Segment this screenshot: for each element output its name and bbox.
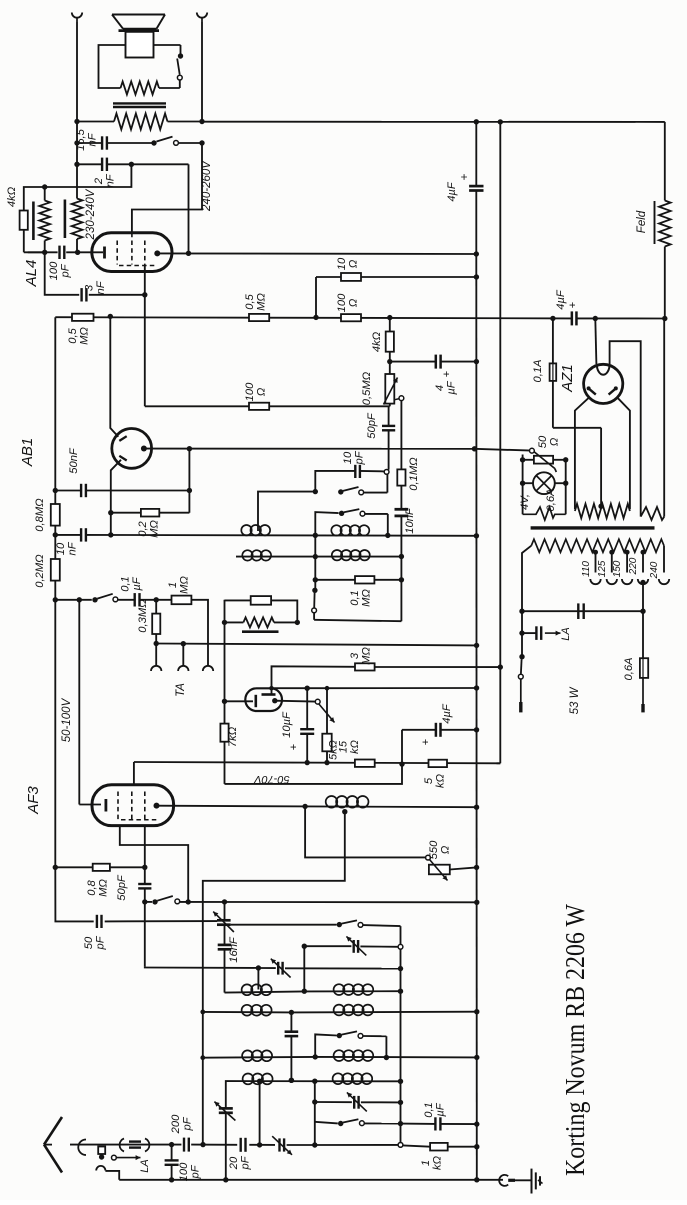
ground chassis <box>532 1169 543 1194</box>
label 550Ω <box>428 840 452 859</box>
capacitor 50pF (osc) <box>97 915 102 928</box>
label 0,1uF <box>120 576 144 592</box>
node <box>313 489 318 494</box>
capacitor 50pF (AF3) <box>138 884 151 888</box>
wire <box>154 45 181 54</box>
inductor ant coil 3a <box>242 1050 272 1061</box>
capacitor 10pF <box>355 465 360 478</box>
svg-text:0,1: 0,1 <box>423 1102 435 1118</box>
svg-text:15: 15 <box>338 740 350 753</box>
svg-text:0,1: 0,1 <box>349 590 361 606</box>
label AB1 <box>19 438 36 467</box>
tube AF3 envelope <box>92 785 174 826</box>
wire <box>475 122 477 254</box>
label 4uF <box>446 181 458 201</box>
contact <box>398 944 403 949</box>
svg-text:100: 100 <box>336 293 348 312</box>
wire <box>77 142 152 144</box>
rheostat 50Ω <box>533 451 556 472</box>
wire <box>305 806 426 857</box>
svg-text:240-260V: 240-260V <box>201 160 213 212</box>
tube AF3 grid 1 dash <box>117 792 119 821</box>
wire <box>53 865 148 870</box>
svg-text:50: 50 <box>83 936 95 949</box>
wire <box>400 516 402 621</box>
lamp 4V 0,6A <box>533 472 555 494</box>
svg-text:MΩ: MΩ <box>98 879 110 897</box>
label 5kΩ (divider) <box>423 773 447 788</box>
switch band 7 <box>315 1119 403 1126</box>
capacitor 4uF (screen) <box>436 355 441 369</box>
wire AF3 anode row <box>157 804 480 810</box>
tube AB1 envelope <box>112 429 152 469</box>
tube AB1 cathode <box>141 446 147 452</box>
label 0,5MΩ <box>67 327 91 345</box>
wire IF secondary row <box>236 556 401 558</box>
label 0,2MΩ (AVC) <box>34 554 46 588</box>
label 0,6A <box>623 657 635 680</box>
label 0,8MΩ (AF3) <box>86 879 110 897</box>
capacitor 16nF <box>218 945 232 949</box>
resistor 100Ω <box>341 314 361 321</box>
svg-text:Ω: Ω <box>348 298 360 307</box>
label 150 <box>612 560 623 577</box>
terminal 240 <box>659 579 669 584</box>
svg-text:0,1MΩ: 0,1MΩ <box>408 457 420 491</box>
node coil tap <box>342 809 347 814</box>
svg-text:LA: LA <box>560 627 572 640</box>
label LA (mains) <box>560 627 572 640</box>
node <box>142 899 147 904</box>
svg-text:nF: nF <box>95 280 107 294</box>
wire trimmer row 2 <box>302 944 352 949</box>
wire coil row 3 <box>203 1054 480 1060</box>
wire left bus <box>54 317 56 867</box>
chassis hook <box>499 1175 515 1186</box>
wire <box>664 247 666 319</box>
svg-text:0,3MΩ: 0,3MΩ <box>137 599 149 633</box>
wire <box>45 252 79 294</box>
wire 3MΩ row <box>272 664 503 688</box>
wire <box>315 1034 337 1056</box>
capacitor trimmer 4 (ant padder) <box>214 1102 235 1121</box>
node <box>399 577 404 582</box>
svg-text:7kΩ: 7kΩ <box>227 726 239 747</box>
wire <box>188 449 190 513</box>
svg-text:AL4: AL4 <box>23 260 40 288</box>
capacitor trimmer 3 <box>271 959 291 978</box>
label 50pF (AB1) <box>366 412 378 439</box>
resistor 100Ω (grid) <box>249 403 269 410</box>
wire AB1 cathode row <box>144 446 477 451</box>
wire <box>110 316 118 436</box>
tube AB1 diode plate 2 <box>119 456 126 461</box>
resistor 0,2MΩ (diode) <box>141 509 159 517</box>
resistor 15kΩ <box>355 760 375 767</box>
svg-text:10: 10 <box>342 451 354 464</box>
svg-text:50pF: 50pF <box>116 874 128 901</box>
wire <box>258 967 400 970</box>
mains plug 220 <box>640 580 645 658</box>
wire AL4 grid feed <box>144 295 146 407</box>
inductor HF choke <box>326 796 369 808</box>
label 50nF <box>68 447 80 474</box>
label 4V, <box>519 494 531 510</box>
label 230-240V <box>85 188 97 240</box>
tube AZ1 filament <box>597 364 610 375</box>
wire <box>74 162 134 167</box>
tube AF3 grid 2 dash <box>131 792 133 821</box>
label 4kΩ <box>6 186 18 207</box>
label 125 <box>597 560 608 577</box>
label 0,3MΩ <box>137 599 149 633</box>
svg-text:0,6A: 0,6A <box>545 488 557 511</box>
node <box>199 140 204 145</box>
label 240 <box>649 561 660 579</box>
capacitor trimmer 5 <box>347 1092 367 1111</box>
wire AL4 anode row <box>157 252 476 255</box>
svg-text:µF: µF <box>131 576 143 590</box>
node <box>108 314 113 319</box>
svg-text:125: 125 <box>597 560 608 577</box>
resistor 1kΩ <box>430 1143 448 1151</box>
wire <box>595 319 596 365</box>
wire <box>224 701 226 784</box>
label AF3 <box>25 786 42 815</box>
capacitor 10nF (wiper) <box>395 509 409 516</box>
wire <box>74 119 114 124</box>
transformer primary winding <box>531 539 664 552</box>
wire <box>118 597 172 602</box>
wire <box>99 45 126 88</box>
svg-text:pF: pF <box>182 1116 194 1131</box>
wire <box>191 600 208 666</box>
label 50Ω <box>537 435 561 448</box>
svg-text:kΩ: kΩ <box>349 740 361 754</box>
node HV center tap <box>598 504 603 509</box>
antenna hook <box>96 1166 105 1171</box>
capacitor 200pF <box>184 1138 189 1152</box>
label + (screen 4uF) <box>441 371 453 377</box>
wire <box>565 460 567 515</box>
wire tap 220 <box>641 550 646 573</box>
svg-text:nF: nF <box>105 173 117 187</box>
wire <box>275 700 316 703</box>
arrow LA <box>545 631 561 636</box>
node <box>200 1055 205 1060</box>
svg-text:+: + <box>288 744 300 750</box>
inductor ant coil 4b <box>333 1073 373 1084</box>
wire bottom bus <box>119 1177 479 1182</box>
wire <box>257 968 259 990</box>
wire IF row <box>53 532 479 538</box>
wire <box>389 318 391 332</box>
svg-text:Feld: Feld <box>636 210 648 233</box>
inductor osc coil 1b <box>334 984 374 995</box>
capacitor mains filter <box>578 603 583 619</box>
label 110 <box>581 561 592 577</box>
svg-text:AF3: AF3 <box>25 786 42 815</box>
terminal hook left (speaker) <box>72 13 82 23</box>
svg-text:1: 1 <box>167 582 179 588</box>
svg-text:50nF: 50nF <box>68 447 80 474</box>
tube AL4 cathode <box>103 247 106 259</box>
label Feld underline <box>654 201 656 244</box>
svg-text:230-240V: 230-240V <box>85 188 97 240</box>
wire TA row <box>156 641 479 648</box>
tube AB1 diode plate 1 <box>119 436 126 441</box>
label 5kΩ <box>328 740 340 760</box>
label 10pF <box>342 450 366 465</box>
label 16,5nF <box>75 128 99 151</box>
node <box>519 630 524 635</box>
label 240-260V <box>201 160 213 212</box>
label 10nF (wiper) <box>404 507 416 534</box>
wire <box>305 688 310 765</box>
contact <box>398 1143 403 1148</box>
label 10nF <box>55 541 79 555</box>
switch band 3 (AVC) <box>312 588 318 620</box>
label 3nF <box>84 280 108 294</box>
wire <box>390 359 479 364</box>
tube AL4 grid 1 dash <box>116 241 118 265</box>
wire <box>131 164 188 253</box>
label 0,1MΩ (IF) <box>349 589 373 607</box>
terminal TA 3 <box>203 666 213 671</box>
label 50-70V <box>253 773 290 785</box>
tube AL4 grid 3 dash <box>144 241 146 267</box>
wire <box>312 1081 317 1148</box>
wire <box>42 184 47 255</box>
wire <box>105 1171 119 1180</box>
capacitor 50pF (AB1) <box>382 426 395 430</box>
wire anode supply row <box>28 251 103 253</box>
wire <box>224 622 226 701</box>
capacitor 50nF <box>81 484 86 497</box>
svg-text:0,5MΩ: 0,5MΩ <box>361 371 373 405</box>
wire <box>168 119 205 124</box>
wire <box>403 1144 480 1149</box>
wire <box>287 1144 399 1146</box>
capacitor trimmer 6 <box>272 1136 292 1155</box>
title Korting Novum RB 2206 W <box>560 904 590 1176</box>
label 100Ω (grid) <box>244 382 268 401</box>
svg-text:4V,: 4V, <box>519 494 531 510</box>
resistor 0,1MΩ (IF) <box>355 576 374 583</box>
transformer HV winding <box>575 504 630 518</box>
switch LA selector <box>99 1154 141 1160</box>
wire <box>224 925 226 993</box>
antenna <box>44 1117 62 1173</box>
wire <box>154 600 159 646</box>
tube AL4 envelope <box>92 233 172 272</box>
wire <box>231 924 337 926</box>
wire <box>24 164 132 210</box>
capacitor 20pF <box>241 1138 246 1152</box>
tube AZ1 anode left <box>587 386 596 394</box>
wire row 688 <box>269 685 479 691</box>
wire <box>144 888 146 966</box>
wire <box>258 492 315 531</box>
label 4kΩ (screen) <box>371 331 383 352</box>
svg-text:MΩ: MΩ <box>361 647 373 665</box>
wire <box>55 867 93 921</box>
wire lamp feed <box>475 449 532 451</box>
label 10Ω <box>336 257 360 270</box>
wire <box>521 611 523 657</box>
svg-text:5: 5 <box>423 777 435 784</box>
wire tap 240 <box>663 546 665 573</box>
wire coil row 2 <box>203 1009 480 1015</box>
wire AF3 grid loop <box>120 826 188 902</box>
node <box>474 251 479 256</box>
wire 50-70V row <box>134 762 500 763</box>
wire <box>553 428 601 506</box>
resistor 4kΩ (screen) <box>386 332 394 352</box>
switch speaker <box>177 53 183 80</box>
wire 240-260V line <box>132 143 202 233</box>
tube diode anode <box>262 695 278 704</box>
node <box>313 533 318 538</box>
wire <box>617 397 630 509</box>
label + (4uF) <box>457 173 471 180</box>
label 0,6A (lamp) <box>545 488 557 511</box>
wire <box>477 1179 503 1181</box>
wire <box>315 579 401 581</box>
label 4uF (cathode) <box>441 703 453 724</box>
inductor IF coil 2 <box>331 525 369 535</box>
resistor 1MΩ <box>172 596 192 605</box>
inductor IF coil 1 <box>241 525 270 535</box>
tube AL4 grid 2 dash <box>131 233 133 265</box>
wire coil row 4 <box>226 1078 403 1109</box>
resistor 0,5MΩ (AL4 grid) <box>72 314 94 321</box>
label 50-100V <box>61 697 73 742</box>
svg-text:4kΩ: 4kΩ <box>371 331 383 352</box>
svg-text:3: 3 <box>349 652 361 659</box>
label AL4 <box>23 260 40 288</box>
wire <box>360 945 398 947</box>
inductor osc coil 2a <box>242 1005 272 1016</box>
capacitor trimmer 2 <box>346 936 366 955</box>
resistor 7kΩ <box>220 724 228 742</box>
output transformer core <box>113 103 166 107</box>
svg-text:20: 20 <box>228 1156 240 1170</box>
svg-text:10µF: 10µF <box>281 711 293 738</box>
svg-text:Korting Novum RB 2206 W: Korting Novum RB 2206 W <box>560 904 590 1176</box>
contact <box>384 470 389 475</box>
svg-text:53 W: 53 W <box>569 686 581 714</box>
resistor voice coil shunt <box>121 82 160 95</box>
wire AF3 screen <box>133 762 135 785</box>
svg-text:0,1: 0,1 <box>120 576 132 592</box>
svg-text:4: 4 <box>434 385 446 391</box>
wire osc bus <box>400 926 402 1145</box>
svg-text:+: + <box>567 302 579 308</box>
wire <box>75 239 80 255</box>
wire <box>610 341 641 516</box>
node <box>398 989 403 994</box>
wire <box>522 632 536 634</box>
svg-text:200: 200 <box>170 1114 182 1134</box>
wire <box>315 471 384 492</box>
antenna coupling arc <box>78 1140 86 1156</box>
svg-text:2: 2 <box>93 177 105 185</box>
wire <box>401 1121 480 1126</box>
inductor osc coil 2b <box>334 1005 374 1016</box>
wire <box>76 122 78 199</box>
capacitor 100pF <box>60 246 65 259</box>
svg-text:0,5: 0,5 <box>67 327 79 343</box>
svg-text:kΩ: kΩ <box>432 1155 444 1170</box>
wire <box>105 920 218 922</box>
svg-text:LA: LA <box>139 1159 151 1172</box>
svg-text:0,1A: 0,1A <box>532 359 544 382</box>
wire mains bus x=500 <box>499 122 501 763</box>
label 0,1uF (ant) <box>423 1102 447 1118</box>
svg-text:MΩ: MΩ <box>179 576 191 594</box>
label LA (ant) <box>139 1159 151 1172</box>
label 0,2MΩ (diode) <box>137 520 161 538</box>
node <box>662 316 667 321</box>
inductor osc coil 1a <box>242 984 272 995</box>
wire <box>53 488 190 493</box>
node <box>74 140 79 145</box>
wire <box>520 481 569 486</box>
wire <box>159 80 180 88</box>
svg-text:nF: nF <box>67 541 79 555</box>
tube AL4 internal dash <box>119 265 156 267</box>
svg-text:µF: µF <box>435 1102 447 1116</box>
label 50pF (osc) <box>83 935 107 950</box>
wire <box>388 406 390 469</box>
svg-text:4µF: 4µF <box>441 703 453 724</box>
label 20pF <box>228 1155 252 1170</box>
wire <box>313 274 479 320</box>
svg-text:150: 150 <box>612 560 623 577</box>
label 4uF (row 317) <box>555 289 567 310</box>
resistor feedback fixed <box>251 596 271 605</box>
wire antenna row <box>70 1144 181 1146</box>
tube AF3 internal dash <box>121 819 157 821</box>
wire <box>663 319 665 517</box>
speaker LS <box>112 15 165 58</box>
tube AZ1 anode right <box>609 386 618 394</box>
switch band 2 <box>315 509 390 538</box>
wire 50-100V line <box>77 597 101 804</box>
svg-text:AB1: AB1 <box>19 438 36 467</box>
capacitor 100pF (ant) <box>165 1160 179 1164</box>
label 3MΩ <box>349 647 373 665</box>
svg-text:MΩ: MΩ <box>361 589 373 607</box>
wire <box>520 457 569 462</box>
capacitor LA coupling <box>536 626 541 640</box>
wire AL4 grid row <box>145 405 390 407</box>
wire AF3 grid cap line <box>144 826 146 885</box>
capacitor 0,1uF <box>135 593 140 606</box>
svg-text:50-100V: 50-100V <box>61 697 73 742</box>
terminal 110 <box>590 579 600 584</box>
svg-text:10: 10 <box>336 257 348 270</box>
contact <box>530 448 535 453</box>
wire <box>225 600 298 623</box>
inductor IF coil 3 <box>242 550 271 560</box>
label 53 W <box>569 686 581 714</box>
wire tap 150 <box>625 550 630 573</box>
label 220 <box>628 557 639 575</box>
capacitor 4uF (cathode) <box>436 723 441 737</box>
label 200pF <box>170 1114 194 1134</box>
